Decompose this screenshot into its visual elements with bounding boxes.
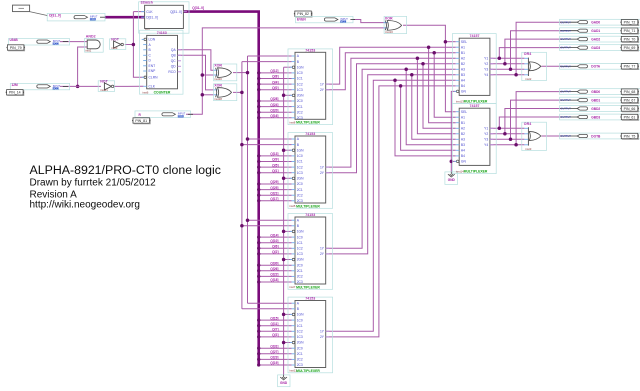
svg-text:Q[3]: Q[3] <box>272 333 278 337</box>
svg-text:ENP: ENP <box>149 69 157 73</box>
svg-text:VCC: VCC <box>178 116 183 118</box>
svg-text:inst2: inst2 <box>525 77 531 81</box>
input pin R / PIN_81 <box>135 111 191 118</box>
svg-text:inst3: inst3 <box>525 147 531 151</box>
svg-text:QB: QB <box>171 54 177 58</box>
74157 MUX 1 <box>452 34 496 104</box>
XOR gate inst10 (EVEN xor R) <box>384 16 407 33</box>
svg-text:ENT: ENT <box>149 64 156 68</box>
svg-text:NOT: NOT <box>111 38 119 42</box>
svg-text:SEL: SEL <box>461 110 467 114</box>
svg-text:GN: GN <box>461 90 467 94</box>
wire: CLK net from NOT1 to 32latch CLK and 74163 CLRN <box>125 44 134 46</box>
svg-text:ALPHA-8921/PRO-CT0 clone logic: ALPHA-8921/PRO-CT0 clone logic <box>30 163 221 177</box>
svg-text:CLK: CLK <box>146 10 153 14</box>
junction A-select mux3 <box>246 218 250 222</box>
svg-text:1C2: 1C2 <box>297 82 303 86</box>
wires: 74157-1 Y outputs to OR4-1 and up to GAD outputs <box>490 57 525 59</box>
svg-text:Y4: Y4 <box>484 143 488 147</box>
svg-text:Q[31..0]: Q[31..0] <box>170 10 182 14</box>
junction SEL net <box>444 40 448 44</box>
svg-text:Q[24]: Q[24] <box>270 103 278 107</box>
svg-text:GAD0: GAD0 <box>591 21 600 25</box>
svg-text:74153: 74153 <box>305 48 315 52</box>
junction B-select mux2 <box>240 143 244 147</box>
svg-text:PIN_68: PIN_68 <box>624 90 636 94</box>
output GAD2 <box>560 36 640 42</box>
svg-text:http://wiki.neogeodev.org: http://wiki.neogeodev.org <box>30 199 140 210</box>
svg-text:inst9: inst9 <box>111 46 117 50</box>
wire: QB to XOR2 top input <box>178 55 215 90</box>
svg-text:1C3: 1C3 <box>297 252 303 256</box>
junction A-select mux2 <box>246 137 250 141</box>
svg-text:GND: GND <box>280 381 288 385</box>
svg-text:Y3: Y3 <box>484 138 488 142</box>
svg-text:Q[25]: Q[25] <box>270 186 278 190</box>
svg-text:74153: 74153 <box>305 132 315 136</box>
svg-text:XOR: XOR <box>214 64 222 68</box>
svg-text:MULTIPLEXER: MULTIPLEXER <box>296 285 320 289</box>
svg-text:2C3: 2C3 <box>297 116 303 120</box>
input pin D[31..0] <box>47 13 105 21</box>
svg-text:Q[14]: Q[14] <box>270 233 278 237</box>
junction CLK net <box>132 43 136 47</box>
svg-text:1C1: 1C1 <box>297 241 303 245</box>
svg-text:1C3: 1C3 <box>297 88 303 92</box>
svg-text:inst: inst <box>145 28 150 32</box>
svg-text:1C1: 1C1 <box>297 324 303 328</box>
svg-text:Q[15]: Q[15] <box>270 316 278 320</box>
OR4 gate inst3 (DOTB) <box>522 122 547 150</box>
svg-text:OUTPUT: OUTPUT <box>561 38 572 41</box>
svg-text:SEL: SEL <box>461 40 467 44</box>
svg-text:OUTPUT: OUTPUT <box>561 108 572 111</box>
svg-text:B3: B3 <box>461 143 465 147</box>
junction R/XOR2 <box>201 93 205 97</box>
svg-text:GAD3: GAD3 <box>591 46 600 50</box>
wire: 12M input to NOT2 <box>60 85 101 87</box>
svg-text:DOTA: DOTA <box>591 65 600 69</box>
74163 counter U2 <box>140 30 184 94</box>
svg-text:2C1: 2C1 <box>297 269 303 273</box>
output GBD1 <box>560 97 640 103</box>
svg-text:B1: B1 <box>461 121 465 125</box>
svg-text:MULTIPLEXER: MULTIPLEXER <box>296 369 320 373</box>
svg-text:1C2: 1C2 <box>297 247 303 251</box>
svg-text:GBD0: GBD0 <box>591 90 600 94</box>
svg-text:2C1: 2C1 <box>297 188 303 192</box>
svg-text:OUTPUT: OUTPUT <box>561 21 572 24</box>
svg-text:1C0: 1C0 <box>297 154 303 158</box>
NOT gate inst21 (12M clock inverter) <box>98 81 114 92</box>
svg-text:CLRN: CLRN <box>149 76 159 80</box>
svg-text:Q[18]: Q[18] <box>270 278 278 282</box>
svg-text:Q[17]: Q[17] <box>270 197 278 201</box>
svg-text:inst10: inst10 <box>385 30 393 34</box>
svg-text:Y3: Y3 <box>484 68 488 72</box>
svg-text:A3: A3 <box>461 138 465 142</box>
svg-text:VCC: VCC <box>53 88 58 90</box>
svg-text:2C2: 2C2 <box>297 110 303 114</box>
svg-text:1C0: 1C0 <box>297 318 303 322</box>
bus rips from Q bus to 74153 data inputs with labels <box>259 72 292 74</box>
svg-text:2GN: 2GN <box>297 177 304 181</box>
svg-text:inst6: inst6 <box>142 90 148 94</box>
ground symbol below 74157-2 <box>445 172 458 185</box>
svg-text:Q[27]: Q[27] <box>270 350 278 354</box>
svg-text:GBD3: GBD3 <box>591 115 600 119</box>
output GAD0 <box>560 19 640 25</box>
svg-text:2C3: 2C3 <box>297 280 303 284</box>
svg-text:74153: 74153 <box>305 213 315 217</box>
wire: QA to XOR1 top input <box>178 50 215 70</box>
tag box top-left <box>13 5 30 12</box>
wire: R(PIN_81) net to XOR bottom inputs and XOR3 <box>186 28 387 114</box>
svg-text:Q[13]: Q[13] <box>270 152 278 156</box>
OR4 gate inst2 (DOTA) <box>522 52 547 80</box>
svg-text:1C2: 1C2 <box>297 330 303 334</box>
wire: XOR3 output to 74157 SEL inputs <box>403 25 456 112</box>
svg-text:B4: B4 <box>461 154 465 158</box>
svg-text:Q[19]: Q[19] <box>270 361 278 365</box>
svg-text:Q[16]: Q[16] <box>270 114 278 118</box>
svg-text:74157: 74157 <box>470 104 480 108</box>
svg-text:VCC: VCC <box>53 44 58 46</box>
svg-text:XOR: XOR <box>214 83 222 87</box>
output DOTB <box>560 133 640 139</box>
svg-text:B3: B3 <box>461 73 465 77</box>
svg-text:GND: GND <box>448 178 456 182</box>
svg-text:2GN: 2GN <box>297 94 304 98</box>
svg-text:XOR: XOR <box>385 16 393 20</box>
svg-text:1GN: 1GN <box>297 148 304 152</box>
junction 12M/AND2 <box>76 85 80 89</box>
svg-text:2C2: 2C2 <box>297 193 303 197</box>
svg-text:OUTPUT: OUTPUT <box>561 47 572 50</box>
wire: XOR2 output to B-select vertical feeding mux B inputs <box>233 91 242 93</box>
svg-text:PIN_81: PIN_81 <box>135 119 147 123</box>
svg-text:inst20: inst20 <box>214 77 222 81</box>
svg-text:1C0: 1C0 <box>297 235 303 239</box>
svg-text:OUTPUT: OUTPUT <box>561 91 572 94</box>
svg-text:GBD2: GBD2 <box>591 107 600 111</box>
svg-text:GAD1: GAD1 <box>591 29 600 33</box>
svg-text:1GN: 1GN <box>297 313 304 317</box>
svg-text:VCC: VCC <box>341 21 346 23</box>
svg-text:inst5: inst5 <box>289 204 295 208</box>
svg-text:Q[30]: Q[30] <box>270 261 278 265</box>
svg-text:Y1: Y1 <box>484 57 488 61</box>
svg-text:Q[8]: Q[8] <box>272 75 278 79</box>
svg-text:Q[0]: Q[0] <box>272 86 278 90</box>
svg-text:32latch: 32latch <box>141 1 153 5</box>
svg-text:2C0: 2C0 <box>297 99 303 103</box>
wire: GN ground vertical for 74153 strobe inputs <box>283 67 285 375</box>
svg-text:2GN: 2GN <box>297 258 304 262</box>
wire: OR4-2 output to DOTB <box>542 135 562 137</box>
output GBD0 <box>560 89 640 95</box>
svg-text:Y2: Y2 <box>484 132 488 136</box>
svg-text:1GN: 1GN <box>297 65 304 69</box>
74153 MUX2 <box>288 133 333 209</box>
svg-text:GBD1: GBD1 <box>591 98 600 102</box>
svg-text:A2: A2 <box>461 127 465 131</box>
svg-text:Q[7]: Q[7] <box>272 328 278 332</box>
svg-text:MULTIPLEXER: MULTIPLEXER <box>464 170 488 174</box>
svg-text:inst1: inst1 <box>85 49 91 53</box>
output GAD3 <box>560 45 640 51</box>
74153 MUX4 <box>288 297 333 373</box>
svg-text:B2: B2 <box>461 62 465 66</box>
svg-text:PIN_61: PIN_61 <box>624 115 636 119</box>
svg-text:PIN_79: PIN_79 <box>10 46 22 50</box>
svg-text:QD: QD <box>171 65 177 69</box>
svg-text:PIN_66: PIN_66 <box>624 107 636 111</box>
junction XOR2 out <box>240 91 244 95</box>
svg-text:PIN_14: PIN_14 <box>9 91 21 95</box>
svg-text:PIN_75: PIN_75 <box>624 134 636 138</box>
svg-text:Q[22]: Q[22] <box>270 273 278 277</box>
svg-text:A1: A1 <box>461 45 465 49</box>
svg-text:2C2: 2C2 <box>297 275 303 279</box>
wire: D[31..0] bus from input pin to 32latch <box>105 16 145 19</box>
wire: 74157 GN pins to ground <box>451 91 455 171</box>
output DOTA <box>560 63 640 69</box>
svg-text:2GN: 2GN <box>297 341 304 345</box>
wires: 74153 outputs rising to 74157-1 A/B inputs, crossing down to 74157-2 <box>326 47 456 84</box>
svg-text:OR4: OR4 <box>524 52 531 56</box>
svg-text:2C0: 2C0 <box>297 263 303 267</box>
svg-text:U54B: U54B <box>10 38 19 42</box>
svg-text:PIN_82: PIN_82 <box>297 12 309 16</box>
input pin EVEN / PIN_82 <box>294 11 312 17</box>
svg-text:PIN_72: PIN_72 <box>624 21 636 25</box>
svg-text:Q[10]: Q[10] <box>270 239 278 243</box>
ground symbol below 74153 muxes <box>278 375 290 387</box>
svg-text:PIN_71: PIN_71 <box>624 29 636 33</box>
svg-text:QA: QA <box>171 48 177 52</box>
svg-text:74157: 74157 <box>470 34 480 38</box>
svg-text:A4: A4 <box>461 149 465 153</box>
svg-text:Q[20]: Q[20] <box>270 108 278 112</box>
svg-text:Q[29]: Q[29] <box>270 180 278 184</box>
svg-text:Q[9]: Q[9] <box>272 158 278 162</box>
svg-text:2C0: 2C0 <box>297 182 303 186</box>
svg-text:Q[6]: Q[6] <box>272 245 278 249</box>
svg-text:1C3: 1C3 <box>297 335 303 339</box>
svg-text:MULTIPLEXER: MULTIPLEXER <box>296 121 320 125</box>
svg-text:A3: A3 <box>461 68 465 72</box>
svg-text:COUNTER: COUNTER <box>154 91 171 95</box>
output GBD2 <box>560 106 640 112</box>
NOT gate inst9 <box>110 39 126 50</box>
svg-text:PIN_67: PIN_67 <box>624 99 636 103</box>
XOR gate inst20 <box>214 64 237 81</box>
svg-text:QC: QC <box>171 59 177 63</box>
svg-text:GAD2: GAD2 <box>591 37 600 41</box>
svg-text:PIN_69: PIN_69 <box>624 46 636 50</box>
svg-text:EVEN: EVEN <box>297 17 306 21</box>
svg-text:2C2: 2C2 <box>297 358 303 362</box>
wire: 12M to AND2 lower input <box>78 47 88 86</box>
svg-text:2C1: 2C1 <box>297 105 303 109</box>
74153 MUX3 <box>288 214 333 290</box>
svg-text:Q[11]: Q[11] <box>271 322 279 326</box>
input pin U54B / PIN_79 <box>8 39 69 45</box>
svg-text:1C3: 1C3 <box>297 171 303 175</box>
svg-text:Q[26]: Q[26] <box>270 267 278 271</box>
svg-text:Q[5]: Q[5] <box>272 163 278 167</box>
svg-text:1GN: 1GN <box>297 230 304 234</box>
svg-text:2C3: 2C3 <box>297 363 303 367</box>
svg-text:Q[4]: Q[4] <box>272 80 278 84</box>
svg-text:RCO: RCO <box>168 70 176 74</box>
svg-text:Y4: Y4 <box>484 73 488 77</box>
junction B-select mux3 <box>240 224 244 228</box>
svg-text:Y2: Y2 <box>484 62 488 66</box>
svg-text:OR4: OR4 <box>524 122 531 126</box>
svg-text:inst7: inst7 <box>289 285 295 289</box>
svg-text:inst8: inst8 <box>289 121 295 125</box>
svg-text:1C0: 1C0 <box>297 71 303 75</box>
svg-text:GN: GN <box>461 160 467 164</box>
svg-text:2C3: 2C3 <box>297 199 303 203</box>
wire: Q[31..0] bus from 32latch to 74153 C inputs <box>183 12 258 365</box>
junction R/XOR1 <box>201 73 205 77</box>
32latch U-LATCH component <box>139 2 189 33</box>
svg-text:OUTPUT: OUTPUT <box>561 30 572 33</box>
svg-text:A4: A4 <box>461 79 465 83</box>
svg-text:LDN: LDN <box>149 38 156 42</box>
XOR gate inst28 <box>214 84 237 101</box>
svg-text:1C1: 1C1 <box>297 160 303 164</box>
svg-text:Q[28]: Q[28] <box>270 97 278 101</box>
svg-text:D[31..0]: D[31..0] <box>146 15 158 19</box>
svg-text:Q[31]: Q[31] <box>270 344 278 348</box>
svg-text:CLK: CLK <box>149 85 156 89</box>
svg-text:OUTPUT: OUTPUT <box>561 65 572 68</box>
input pin 12M / PIN_14 <box>10 83 69 89</box>
svg-text:Q[21]: Q[21] <box>270 191 278 195</box>
wires: 74157-2 Y outputs to OR4-2 and up to GBD outputs <box>490 127 525 129</box>
svg-text:VCC: VCC <box>90 19 95 21</box>
junction GN2 <box>450 160 454 164</box>
wire: NOT2 to 74163 CLK <box>114 85 144 87</box>
svg-text:OUTPUT: OUTPUT <box>561 135 572 138</box>
output GAD1 <box>560 28 640 34</box>
svg-text:Q[1]: Q[1] <box>272 169 278 173</box>
svg-text:1C2: 1C2 <box>297 165 303 169</box>
svg-text:B1: B1 <box>461 51 465 55</box>
svg-text:74153: 74153 <box>305 297 315 301</box>
svg-text:AND2: AND2 <box>86 35 96 39</box>
svg-text:B2: B2 <box>461 132 465 136</box>
svg-text:Q[23]: Q[23] <box>270 356 278 360</box>
svg-text:1C1: 1C1 <box>297 77 303 81</box>
wire: OR4-1 output to DOTA <box>542 65 562 67</box>
svg-text:OUTPUT: OUTPUT <box>561 99 572 102</box>
svg-text:DOTB: DOTB <box>591 134 601 138</box>
svg-text:OUTPUT: OUTPUT <box>561 116 572 119</box>
junction XOR1 out <box>246 71 250 75</box>
svg-text:inst28: inst28 <box>214 97 222 101</box>
svg-text:Y1: Y1 <box>484 127 488 131</box>
svg-text:2C0: 2C0 <box>297 346 303 350</box>
svg-text:2C1: 2C1 <box>297 352 303 356</box>
svg-text:Drawn by furrtek 21/05/2012: Drawn by furrtek 21/05/2012 <box>30 178 157 189</box>
wire: XOR1 output to A-select vertical feeding mux A inputs <box>233 72 248 74</box>
svg-text:Q[2]: Q[2] <box>272 250 278 254</box>
svg-text:D[31..0]: D[31..0] <box>49 14 61 18</box>
svg-text:B4: B4 <box>461 84 465 88</box>
74153 MUX1 <box>288 49 333 125</box>
74157 MUX 2 <box>452 104 496 174</box>
output GBD3 <box>560 114 640 120</box>
svg-text:PIN_77: PIN_77 <box>624 65 636 69</box>
svg-text:inst21: inst21 <box>100 88 108 92</box>
svg-text:A1: A1 <box>461 115 465 119</box>
svg-text:Q[31..0]: Q[31..0] <box>192 6 204 10</box>
AND2 gate inst1 <box>85 38 104 52</box>
svg-text:MULTIPLEXER: MULTIPLEXER <box>296 204 320 208</box>
svg-text:Q[12]: Q[12] <box>270 69 278 73</box>
wire: U54B input to AND2 <box>60 41 87 43</box>
svg-text:A2: A2 <box>461 57 465 61</box>
svg-text:74163: 74163 <box>157 31 167 35</box>
svg-text:PIN_70: PIN_70 <box>624 38 636 42</box>
svg-text:12M: 12M <box>12 83 19 87</box>
wire: EVEN input to XOR3 top input <box>353 20 388 23</box>
